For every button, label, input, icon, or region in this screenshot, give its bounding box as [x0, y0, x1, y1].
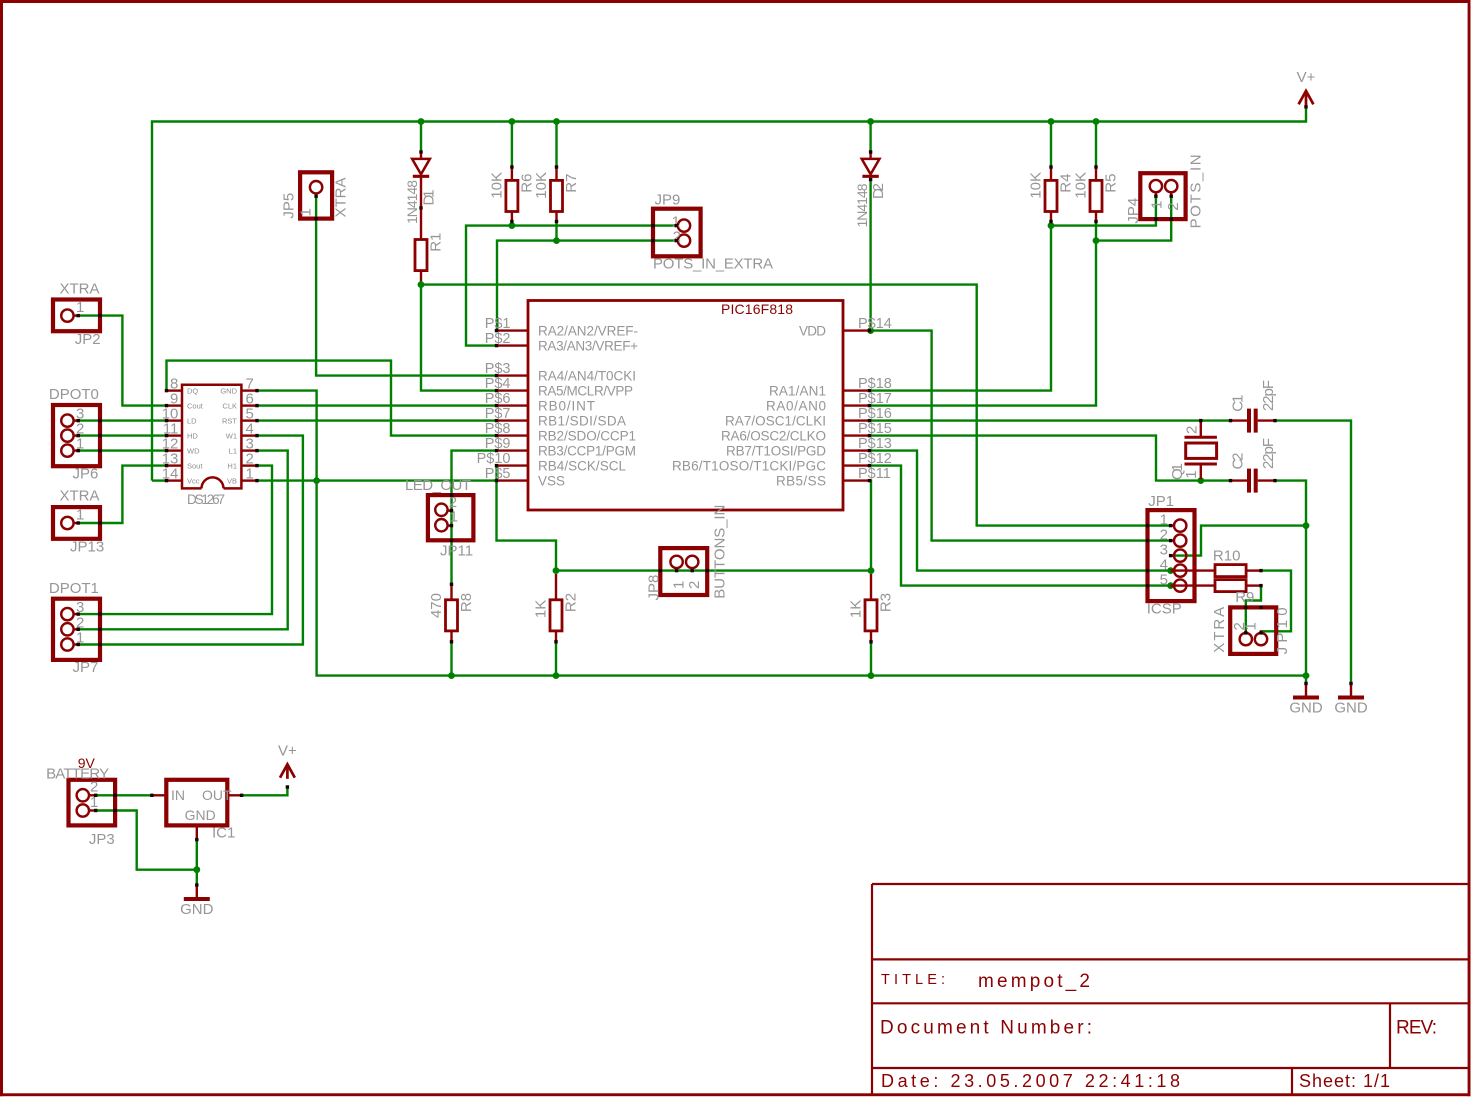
resistor R3 1K: [870, 574, 872, 600]
DS1267 pins right: [241, 389, 257, 391]
crystal Q1: [1200, 421, 1202, 438]
power symbol V+ bottom: [280, 764, 295, 777]
svg-text:470: 470: [428, 593, 445, 618]
connector JP7 DPOT1: [53, 599, 100, 660]
wire net IC1 GND to GND symbol: [196, 840, 198, 885]
svg-text:JP4: JP4: [1125, 198, 1142, 224]
PIC16F818 pins left: [497, 329, 529, 331]
svg-text:LED_OUT: LED_OUT: [405, 477, 471, 494]
svg-text:RB7/T1OSI/PGD: RB7/T1OSI/PGD: [726, 443, 826, 458]
wire net R9 to JP10 pin2: [1246, 586, 1261, 633]
svg-text:1: 1: [246, 466, 254, 483]
wire JP1 pin3 jog to GND net: [1171, 526, 1306, 556]
svg-text:V+: V+: [278, 742, 297, 759]
svg-text:DPOT1: DPOT1: [49, 580, 99, 597]
wire V+ top rail: [152, 107, 1306, 481]
connector JP1 ICSP: [1148, 510, 1195, 601]
ground symbol GND battery: [196, 885, 198, 898]
svg-text:1K: 1K: [533, 600, 550, 618]
wire net PGD: PIC P$13 to JP1 pin4: [870, 451, 1171, 571]
connector JP2: [53, 300, 100, 332]
svg-text:R7: R7: [563, 174, 580, 193]
svg-text:VDD: VDD: [799, 323, 826, 338]
svg-text:RB0/INT: RB0/INT: [538, 398, 595, 413]
svg-text:10K: 10K: [1073, 172, 1090, 199]
wire D1 anode from rail: [420, 122, 422, 153]
junction dot VDD at P$14: [867, 327, 874, 334]
wire R2 bottom to ground rail: [555, 642, 557, 676]
junction dot MCLR at R1: [418, 281, 425, 288]
svg-text:BATTERY: BATTERY: [46, 765, 109, 782]
resistor R2 1K: [555, 574, 557, 600]
wire R7 top from rail: [555, 122, 557, 168]
connector JP3 battery: [69, 780, 116, 826]
svg-text:DS1267: DS1267: [187, 492, 225, 507]
wire net JP6 pin2 to DS1267 HD: [78, 434, 166, 436]
svg-text:2: 2: [1184, 426, 1201, 434]
IC U1 PIC16F818: [528, 301, 843, 511]
connector JP10: [1230, 607, 1276, 654]
IC U2 DS1267: [182, 385, 241, 489]
resistor R8 470: [450, 584, 452, 600]
svg-text:2: 2: [673, 228, 681, 245]
capacitor C1 22pF: [1231, 419, 1248, 421]
svg-text:VB: VB: [227, 477, 237, 486]
svg-text:H1: H1: [227, 462, 237, 471]
wire R5 top from rail: [1095, 122, 1097, 168]
svg-text:R8: R8: [458, 593, 475, 612]
svg-text:D2: D2: [870, 183, 887, 199]
wire net MCLR: R1 to PIC P$4 and JP1 pin1: [421, 281, 1171, 526]
svg-text:ICSP: ICSP: [1147, 601, 1182, 618]
wire net JP5 to PIC P$3: [316, 196, 496, 375]
wire net DS1267 W1 to JP7 pin1: [78, 436, 303, 645]
wire net IC1 OUT to V+: [242, 787, 288, 795]
svg-text:R3: R3: [878, 593, 895, 612]
connector JP9 POTS_IN_EXTRA: [653, 209, 701, 257]
connector JP6 DPOT0: [53, 405, 100, 466]
svg-text:10K: 10K: [533, 172, 550, 199]
pin connection nibs: [419, 150, 422, 153]
wire net DS1267 H1 to JP7 pin3: [78, 466, 272, 614]
wire net JP6 pin1 to DS1267 WD: [78, 449, 166, 451]
junction dot POT4 at R5: [1093, 237, 1100, 244]
svg-text:1N4148: 1N4148: [854, 183, 870, 227]
connector JP11 LED_OUT: [428, 495, 474, 540]
svg-text:P$17: P$17: [858, 391, 892, 407]
junction dot GND net at JP1 pin3 branch: [1303, 522, 1310, 529]
wire D2 anode from rail: [869, 122, 871, 153]
svg-text:10K: 10K: [1028, 172, 1045, 199]
svg-text:JP8: JP8: [646, 575, 663, 601]
svg-text:1: 1: [1183, 470, 1200, 478]
svg-text:WD: WD: [187, 447, 200, 456]
svg-text:CLK: CLK: [222, 402, 237, 411]
diode D2 1N4148: [869, 152, 871, 159]
wire net DS1267 RST to PIC P$7: [258, 419, 497, 421]
svg-text:JP9: JP9: [655, 192, 681, 209]
svg-text:1: 1: [1149, 201, 1166, 209]
wire net POT2: R7 to JP9 pin2 and PIC P$1: [555, 222, 557, 241]
svg-text:RB5/SS: RB5/SS: [776, 473, 826, 488]
svg-text:RA6/OSC2/CLKO: RA6/OSC2/CLKO: [721, 428, 826, 443]
junction dot buttons at R3: [868, 567, 875, 574]
wire net RB5: PIC P$11 to R3: [870, 481, 872, 571]
svg-text:XTRA: XTRA: [333, 177, 350, 217]
svg-text:RA1/AN1: RA1/AN1: [769, 383, 826, 398]
svg-text:P$16: P$16: [858, 406, 892, 422]
wire net OSC1: PIC P$16 to crystal pin2 and C1: [870, 419, 1231, 421]
junction dot at JP1 pin4: [1167, 567, 1174, 574]
svg-text:1: 1: [671, 581, 688, 589]
ground symbol GND right 1: [1305, 684, 1307, 697]
connector JP13: [53, 507, 100, 539]
svg-text:1N4148: 1N4148: [404, 180, 420, 224]
svg-text:10K: 10K: [489, 172, 506, 199]
svg-text:JP11: JP11: [440, 543, 473, 560]
wire net battery JP3 pin2 to IC1 IN: [96, 794, 152, 796]
wire GND stub below rail right: [1305, 676, 1307, 684]
junction dots ground rail: [448, 672, 455, 679]
page frame border: [0, 0, 1471, 3]
svg-text:1: 1: [76, 506, 84, 523]
junction dot VSS at DS1267: [313, 477, 320, 484]
svg-text:D1: D1: [421, 190, 438, 206]
IC IC1 voltage regulator: [166, 780, 227, 826]
wire net DS1267 L1 to JP7 pin2: [78, 451, 288, 630]
svg-text:RA5/MCLR/VPP: RA5/MCLR/VPP: [538, 383, 633, 398]
svg-text:P$10: P$10: [477, 451, 511, 467]
junction dot POT3 at R4: [1048, 222, 1055, 229]
svg-text:RB6/T1OSO/T1CKI/PGC: RB6/T1OSO/T1CKI/PGC: [672, 458, 826, 473]
svg-text:2: 2: [686, 581, 703, 589]
wire net buttons row JP8: [556, 569, 871, 571]
junction dot OSC2 at crystal pin1: [1197, 477, 1204, 484]
wire net JP2 to DS1267 COUT: [78, 316, 166, 406]
connector JP8 BUTTONS_IN: [660, 548, 707, 595]
svg-text:P$18: P$18: [858, 376, 892, 392]
resistor R7 10K: [555, 167, 557, 180]
junction dot at JP1 pin5: [1167, 582, 1174, 589]
wire net DS1267 DQ to PIC P$8: [167, 361, 497, 436]
svg-text:XTRA: XTRA: [60, 281, 100, 298]
junction dot battery GND: [193, 866, 200, 873]
svg-text:P$14: P$14: [858, 316, 892, 332]
svg-text:HD: HD: [187, 432, 198, 441]
resistor R4 10K: [1050, 167, 1052, 180]
resistor R6 10K: [511, 167, 513, 180]
svg-text:PIC16F818: PIC16F818: [721, 301, 793, 317]
svg-text:C1: C1: [1229, 395, 1246, 412]
svg-text:GND: GND: [1334, 700, 1368, 717]
svg-text:2: 2: [1165, 202, 1182, 210]
svg-text:JP2: JP2: [75, 331, 101, 348]
wire net RB4: PIC P$10 to JP8 pin1 and R2: [497, 466, 557, 571]
connector JP5: [300, 172, 332, 218]
svg-text:JP6: JP6: [73, 466, 99, 483]
junction dot POT2 at R7: [553, 237, 560, 244]
svg-text:RB4/SCK/SCL: RB4/SCK/SCL: [538, 458, 626, 473]
svg-text:POTS_IN_EXTRA: POTS_IN_EXTRA: [653, 256, 773, 273]
svg-text:DPOT0: DPOT0: [49, 386, 99, 403]
svg-text:R1: R1: [428, 233, 445, 252]
svg-text:P$12: P$12: [858, 451, 892, 467]
svg-text:RA3/AN3/VREF+: RA3/AN3/VREF+: [538, 338, 638, 353]
svg-text:Sout: Sout: [187, 462, 203, 471]
svg-text:JP5: JP5: [281, 193, 298, 219]
svg-text:P$15: P$15: [858, 421, 892, 437]
svg-text:XTRA: XTRA: [60, 488, 100, 505]
svg-text:TITLE:: TITLE:: [881, 972, 945, 988]
wire R6 top from rail: [511, 122, 513, 168]
svg-text:GND: GND: [180, 901, 214, 918]
svg-text:IN: IN: [171, 787, 185, 803]
resistor R5 10K: [1095, 167, 1097, 180]
svg-text:JP7: JP7: [73, 659, 99, 676]
wire net JP6 pin3 to DS1267 LD: [78, 419, 166, 421]
svg-text:Date: 23.05.2007 22:41:18: Date: 23.05.2007 22:41:18: [881, 1071, 1180, 1091]
svg-text:V+: V+: [1297, 69, 1316, 86]
svg-text:W1: W1: [226, 432, 237, 441]
svg-text:1: 1: [1243, 622, 1260, 630]
svg-text:REV:: REV:: [1396, 1018, 1437, 1039]
wire net C2 right to GND and JP1 pin3: [1275, 481, 1306, 676]
junction dot buttons at R2: [553, 567, 560, 574]
wire R8 bottom to ground rail: [450, 642, 452, 676]
resistor R9: [1171, 584, 1215, 586]
power symbol V+ top: [1299, 91, 1314, 104]
svg-text:22pF: 22pF: [1260, 380, 1277, 411]
svg-text:1K: 1K: [848, 600, 865, 618]
svg-text:mempot_2: mempot_2: [978, 971, 1090, 992]
svg-text:BUTTONS_IN: BUTTONS_IN: [712, 505, 729, 599]
svg-text:DQ: DQ: [187, 387, 198, 396]
svg-text:OUT: OUT: [202, 787, 232, 803]
diode D1 1N4148: [420, 152, 422, 159]
DS1267 pins left: [167, 389, 183, 391]
svg-text:RA2/AN2/VREF-: RA2/AN2/VREF-: [538, 323, 638, 338]
svg-text:L1: L1: [229, 447, 237, 456]
ground symbol GND right 2: [1350, 684, 1352, 697]
svg-text:C2: C2: [1229, 453, 1246, 470]
svg-text:1: 1: [298, 208, 315, 216]
connector JP4 POTS_IN: [1140, 173, 1185, 219]
svg-text:5: 5: [1160, 572, 1168, 589]
svg-text:1: 1: [76, 299, 84, 316]
svg-text:JP1: JP1: [1148, 493, 1174, 510]
wire net VDD: D2 to PIC P$14 and JP1 pin2: [869, 180, 871, 331]
wire R4 top from rail: [1050, 122, 1052, 168]
svg-text:P$13: P$13: [858, 436, 892, 452]
wire net RB3: PIC P$9 to JP11 and R8: [452, 451, 497, 585]
wire net VSS row: DS1267 VB to PIC VSS: [258, 479, 497, 481]
svg-text:Vcc: Vcc: [187, 477, 200, 486]
svg-text:Sheet: 1/1: Sheet: 1/1: [1299, 1071, 1390, 1091]
wire net PGC: PIC P$12 to JP1 pin5: [870, 466, 1171, 586]
svg-text:14: 14: [162, 466, 179, 483]
svg-text:R2: R2: [563, 593, 580, 612]
svg-text:LD: LD: [187, 417, 197, 426]
wire net OSC2: PIC P$15 to crystal pin1 and C2: [870, 436, 1231, 481]
PIC16F818 pins right: [842, 329, 870, 331]
svg-text:RB3/CCP1/PGM: RB3/CCP1/PGM: [538, 443, 636, 458]
svg-text:POTS_IN: POTS_IN: [1188, 154, 1205, 228]
svg-text:R9: R9: [1235, 589, 1254, 606]
svg-text:GND: GND: [220, 387, 237, 396]
svg-text:RST: RST: [222, 417, 237, 426]
junction dots V+ rail: [418, 118, 425, 125]
resistor R10: [1171, 569, 1215, 571]
title block frame: [872, 884, 1468, 1094]
svg-text:RB1/SDI/SDA: RB1/SDI/SDA: [538, 413, 626, 428]
junction dot POT1 at R6: [509, 222, 516, 229]
wire net POT1: R6 to JP9 pin1 and PIC P$2: [511, 222, 513, 226]
svg-text:JP13: JP13: [70, 539, 104, 556]
svg-text:P$11: P$11: [858, 466, 891, 482]
svg-text:GND: GND: [1289, 700, 1323, 717]
svg-text:RA7/OSC1/CLKI: RA7/OSC1/CLKI: [725, 413, 826, 428]
wire net POT4: R5 to JP4 pin2 and PIC P$17: [1095, 222, 1097, 241]
wire net R10 to JP10 pin1: [1261, 571, 1291, 633]
capacitor C2 22pF: [1231, 479, 1248, 481]
svg-text:GND: GND: [185, 807, 216, 823]
svg-text:XTRA: XTRA: [1211, 607, 1228, 653]
svg-text:Cout: Cout: [187, 402, 204, 411]
svg-text:22pF: 22pF: [1260, 438, 1277, 469]
svg-text:R5: R5: [1103, 174, 1120, 193]
svg-text:IC1: IC1: [212, 825, 235, 842]
wire net C1 right to GND: [1275, 421, 1351, 684]
svg-text:VSS: VSS: [538, 473, 565, 488]
svg-text:R10: R10: [1213, 547, 1241, 564]
svg-text:JP3: JP3: [89, 831, 115, 848]
wire net JP13 to DS1267 SOUT: [78, 466, 166, 523]
wire R3 bottom to ground rail: [870, 642, 872, 676]
resistor R1: [420, 176, 422, 239]
svg-text:RA4/AN4/T0CKI: RA4/AN4/T0CKI: [538, 368, 636, 383]
svg-text:RB2/SDO/CCP1: RB2/SDO/CCP1: [538, 428, 636, 443]
wire net DS1267 CLK to PIC P$6: [258, 404, 497, 406]
wire net POT3: R4 to JP4 pin1 and PIC P$18: [1050, 222, 1052, 226]
wire V+ rail to DS1267 VCC: [152, 479, 167, 481]
wire net GND-VSS: DS1267 GND down to VSS row and ground rail: [258, 391, 1306, 676]
svg-text:Document Number:: Document Number:: [880, 1018, 1092, 1039]
wire net battery JP3 pin1 to GND: [96, 811, 197, 870]
svg-text:RA0/AN0: RA0/AN0: [766, 398, 826, 413]
